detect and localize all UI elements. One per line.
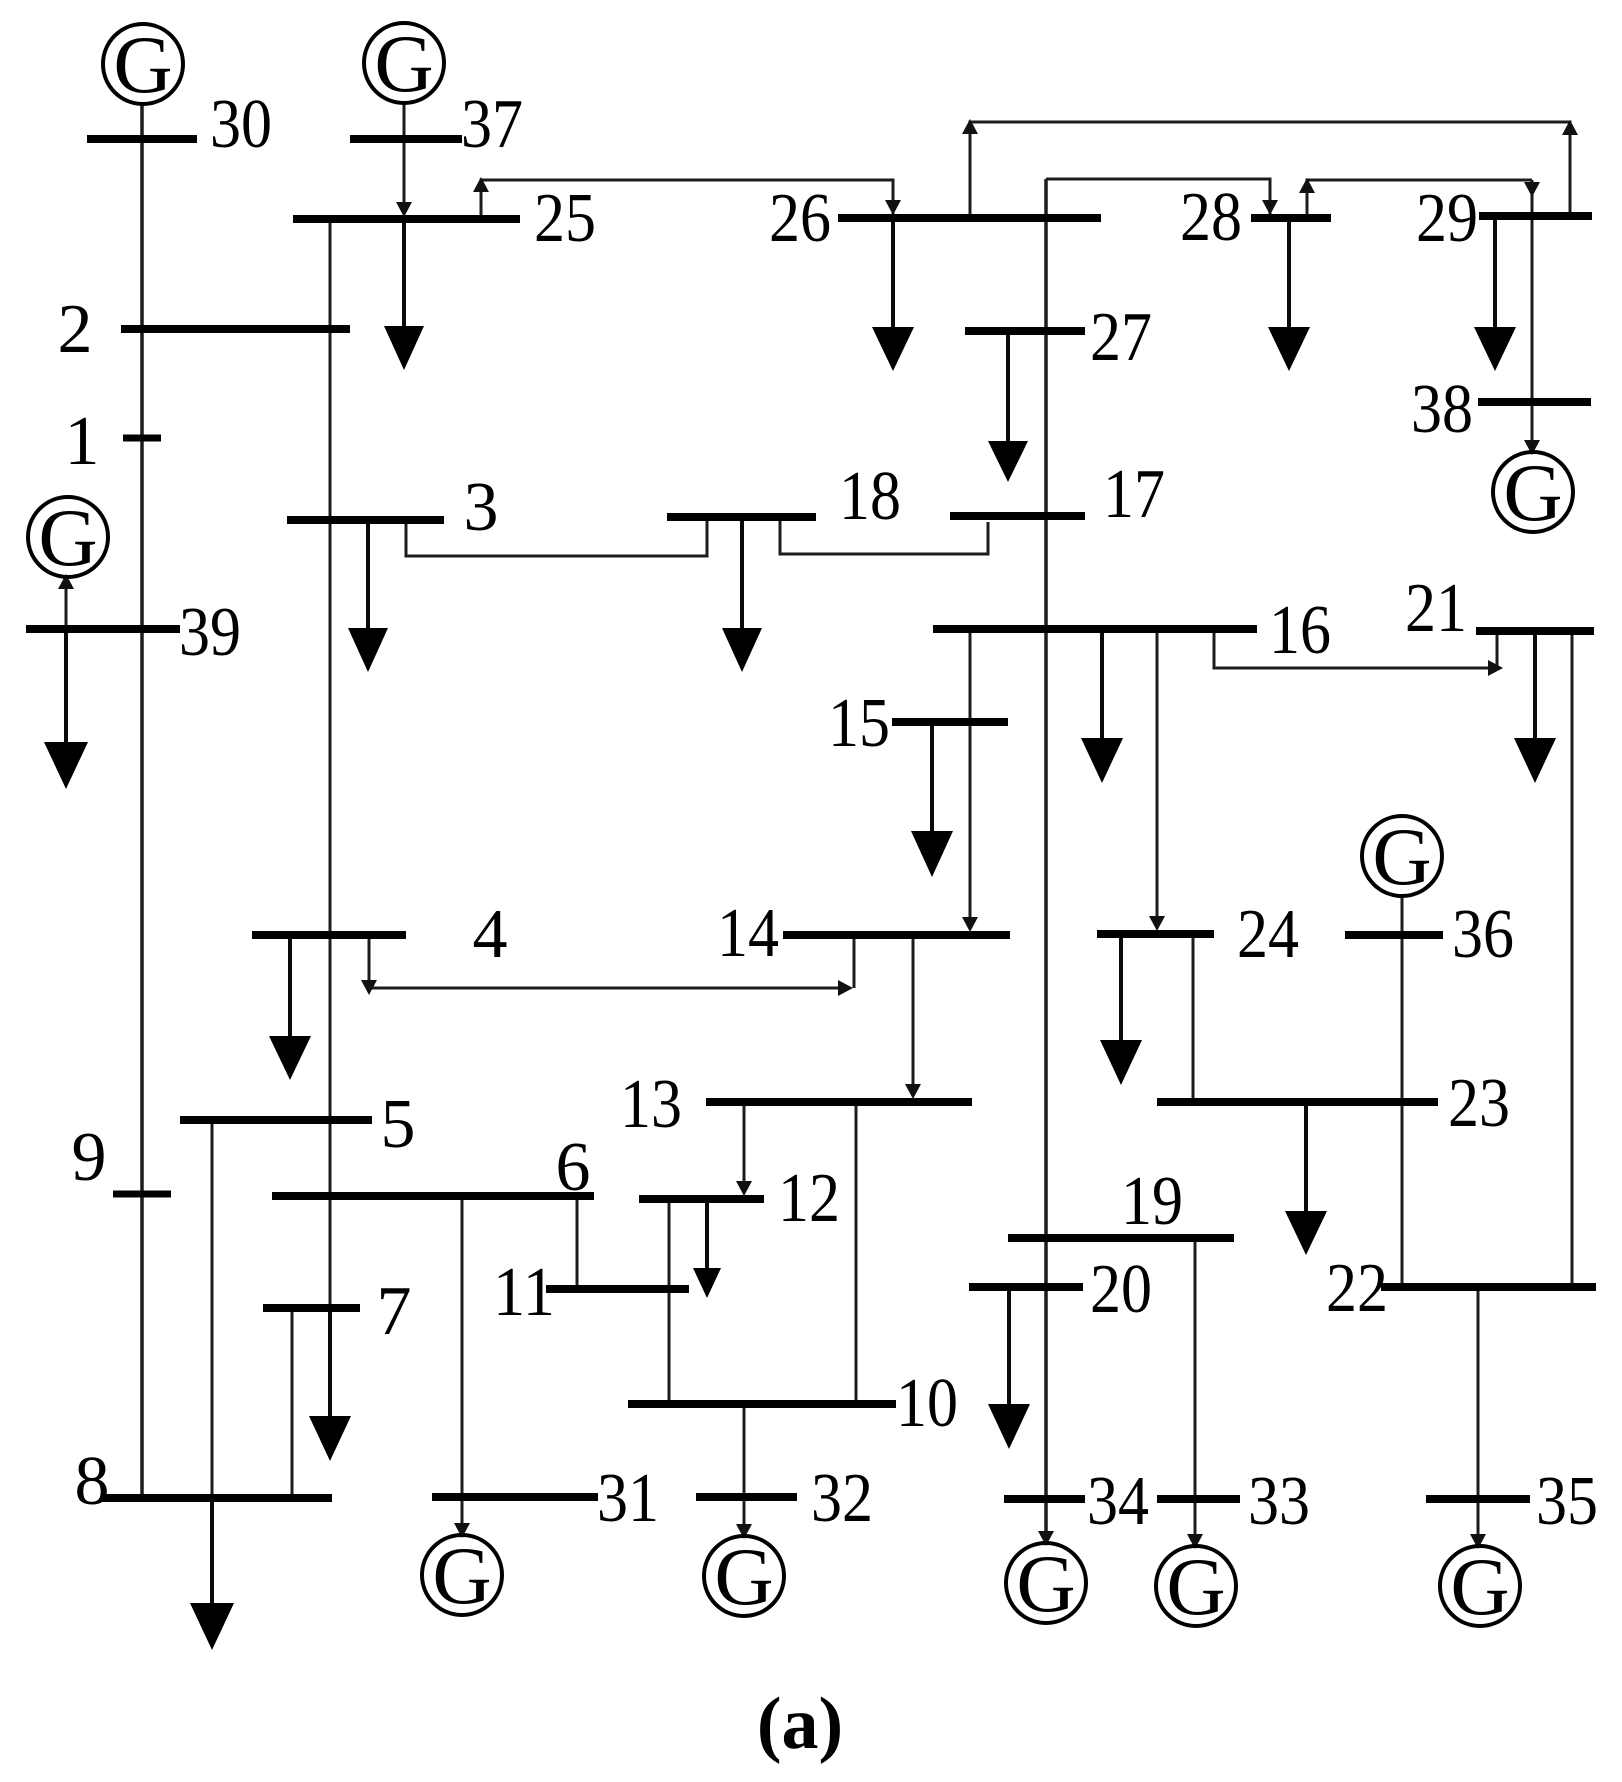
load at bus 21 (1514, 635, 1556, 783)
load at bus 4 (269, 939, 311, 1080)
wire 25-26 link (481, 180, 893, 215)
svg-text:15: 15 (828, 685, 890, 762)
svg-text:28: 28 (1180, 179, 1242, 256)
bus 29 (1479, 212, 1592, 220)
svg-text:10: 10 (896, 1365, 958, 1442)
svg-text:6: 6 (556, 1129, 591, 1206)
svg-text:12: 12 (778, 1160, 840, 1237)
bus 18 (667, 513, 816, 521)
svg-text:20: 20 (1090, 1251, 1152, 1328)
bus 30 (87, 135, 197, 143)
arrowhead into G33 (1187, 1534, 1203, 1549)
arrowhead 15-14 into bus 14 (962, 917, 978, 932)
load at bus 26 (872, 222, 914, 371)
bus 3 (287, 516, 444, 524)
bus 5 (180, 1116, 372, 1124)
load at bus 20 (988, 1291, 1030, 1449)
svg-text:G: G (1166, 1541, 1225, 1632)
svg-text:23: 23 (1448, 1065, 1510, 1142)
bus 31 (432, 1493, 598, 1501)
wire 24-23 (1192, 938, 1195, 1102)
load at bus 28 (1268, 222, 1310, 371)
wire 3-18 link (406, 521, 707, 556)
load at bus 24 (1100, 938, 1142, 1085)
wire 26-27-17-16-19-20-34 spine (1044, 179, 1048, 1544)
svg-text:16: 16 (1269, 592, 1331, 669)
wire 26-29 link (970, 122, 1570, 214)
arrowhead 14-13 into bus 13 (905, 1084, 921, 1099)
svg-text:33: 33 (1248, 1463, 1310, 1540)
svg-text:17: 17 (1103, 456, 1165, 533)
bus 12 (639, 1195, 764, 1203)
svg-text:1: 1 (65, 403, 100, 480)
bus 33 (1157, 1495, 1240, 1503)
load at bus 29 (1474, 220, 1516, 371)
bus 34 (1004, 1495, 1085, 1503)
wire 14-13 (912, 939, 915, 1088)
svg-text:G: G (38, 492, 97, 583)
load at bus 7 (309, 1312, 351, 1461)
load at bus 27 (988, 335, 1028, 482)
svg-text:14: 14 (717, 895, 779, 972)
wire 29-38-G38 (1531, 180, 1534, 453)
wire 16-21 riser (1496, 635, 1499, 666)
bus 39 (26, 625, 180, 633)
svg-text:5: 5 (381, 1086, 416, 1163)
wire 16-24 (1156, 633, 1159, 918)
svg-text:4: 4 (473, 896, 508, 973)
bus 16 (933, 625, 1257, 633)
wire G36-36-23-22 (1401, 895, 1404, 1283)
bus 9 (113, 1191, 171, 1198)
wire 7-8 (291, 1312, 294, 1494)
load at bus 12 (693, 1203, 721, 1298)
bus 13 (706, 1098, 972, 1106)
generator G32 (704, 1531, 784, 1622)
wire 6-11 (576, 1200, 579, 1285)
arrowhead 37 into bus 25 (396, 202, 412, 217)
svg-text:7: 7 (377, 1273, 412, 1350)
arrowhead into G38 (1524, 440, 1540, 455)
bus 2 (121, 325, 350, 333)
wire 10-32-G32 (743, 1408, 746, 1537)
load at bus 25 (384, 223, 424, 370)
svg-text:26: 26 (769, 180, 831, 257)
svg-text:G: G (1016, 1538, 1075, 1629)
arrowhead 4-14 right (838, 980, 853, 996)
generator G33 (1156, 1541, 1236, 1632)
bus 19 (1008, 1234, 1234, 1242)
arrowhead into G39 (58, 574, 74, 589)
bus 28 (1251, 214, 1331, 222)
load at bus 15 (911, 726, 953, 877)
bus 8 (102, 1494, 332, 1502)
wire 30-2-1-39-9-8 (140, 103, 144, 1498)
bus 7 (263, 1304, 360, 1312)
generator G35 (1440, 1541, 1520, 1632)
arrowhead into G34 (1038, 1531, 1054, 1546)
generator G31 (422, 1530, 502, 1621)
arrowhead into G32 (736, 1524, 752, 1539)
load at bus 16 (1081, 633, 1123, 783)
svg-text:38: 38 (1411, 371, 1473, 448)
arrowhead into G35 (1470, 1534, 1486, 1549)
arrowhead 26-28 into bus 28 (1262, 200, 1278, 215)
load at bus 3 (348, 524, 388, 672)
arrowhead 26-29 corner (1562, 120, 1578, 135)
generator G30 (103, 19, 183, 110)
svg-text:35: 35 (1536, 1463, 1598, 1540)
svg-text:G: G (1450, 1541, 1509, 1632)
arrowhead 16-24 into bus 24 (1149, 916, 1165, 931)
svg-text:27: 27 (1090, 299, 1152, 376)
wire G39-39 (65, 576, 68, 629)
wire 5-8 (211, 1124, 214, 1498)
wire 12-11-10 (668, 1203, 671, 1404)
arrowhead 28-29 up (1299, 178, 1315, 193)
generator G36 (1362, 811, 1442, 902)
svg-text:G: G (374, 18, 433, 109)
svg-text:3: 3 (464, 469, 499, 546)
svg-text:21: 21 (1405, 570, 1467, 647)
wire 6-31-G31 (461, 1200, 464, 1536)
generator G38 (1493, 447, 1573, 538)
generator G39 (28, 492, 108, 583)
wire 25-2-3-4-5-6-7 spine (329, 222, 332, 1308)
svg-text:11: 11 (493, 1254, 555, 1331)
svg-text:29: 29 (1416, 180, 1478, 257)
load at bus 8 (190, 1498, 234, 1650)
wire 13-12 (743, 1106, 746, 1185)
arrowhead 28-29 down (1524, 182, 1540, 197)
arrowhead into G31 (454, 1523, 470, 1538)
wire 13-10 (855, 1106, 858, 1404)
wire 28-29 link (1307, 180, 1532, 214)
bus 14 (783, 931, 1010, 939)
svg-text:36: 36 (1452, 896, 1514, 973)
svg-text:(a): (a) (757, 1683, 843, 1765)
arrowhead 26-29 up (962, 119, 978, 134)
bus 23 (1157, 1098, 1438, 1106)
bus 11 (546, 1285, 689, 1293)
arrowhead 16-21 right (1488, 660, 1503, 676)
svg-text:37: 37 (461, 86, 523, 163)
svg-text:G: G (1372, 811, 1431, 902)
svg-text:G: G (714, 1531, 773, 1622)
wire G37-37-25 (403, 102, 406, 214)
svg-text:18: 18 (839, 458, 901, 535)
bus 15 (892, 718, 1008, 726)
bus 22 (1381, 1283, 1596, 1291)
wire 22-35-G35 (1477, 1291, 1480, 1547)
generator G37 (364, 18, 444, 109)
bus 17 (950, 512, 1085, 520)
bus 6 (272, 1192, 594, 1200)
load at bus 39 (44, 633, 88, 789)
bus 36 (1345, 931, 1443, 939)
bus 37 (350, 135, 462, 143)
load at bus 18 (722, 521, 762, 672)
svg-text:2: 2 (58, 291, 93, 368)
arrowhead 25-26 into bus 26 (885, 200, 901, 215)
svg-text:30: 30 (210, 86, 272, 163)
wire 18-17 link (780, 521, 988, 554)
wire 4-14 riser (853, 939, 856, 988)
svg-text:8: 8 (75, 1443, 110, 1520)
bus 25 (293, 215, 520, 223)
svg-text:19: 19 (1121, 1163, 1183, 1240)
svg-text:22: 22 (1326, 1250, 1388, 1327)
bus 35 (1426, 1495, 1530, 1503)
svg-text:31: 31 (597, 1460, 659, 1537)
svg-text:25: 25 (534, 180, 596, 257)
wire 16-15-14 (969, 633, 972, 918)
bus 10 (628, 1400, 896, 1408)
arrowhead 25-26 up (473, 177, 489, 192)
wire 26-28 link (1046, 179, 1270, 214)
wire 21-22 (1571, 635, 1574, 1283)
svg-text:32: 32 (811, 1460, 873, 1537)
svg-text:34: 34 (1087, 1463, 1149, 1540)
svg-text:9: 9 (72, 1119, 107, 1196)
bus 21 (1476, 627, 1594, 635)
svg-text:24: 24 (1237, 896, 1299, 973)
bus 1 (123, 435, 161, 442)
bus 24 (1097, 930, 1214, 938)
wire 19-33-G33 (1194, 1242, 1197, 1547)
bus 4 (252, 931, 406, 939)
arrowhead 4-14 down (361, 980, 377, 995)
bus 38 (1478, 398, 1591, 406)
wire 16-21 link (1214, 633, 1490, 668)
wire 4-14 link (369, 939, 840, 988)
bus 26 (838, 214, 1101, 222)
svg-text:G: G (432, 1530, 491, 1621)
arrowhead 13-12 into bus 12 (736, 1181, 752, 1196)
svg-text:39: 39 (179, 594, 241, 671)
bus 27 (965, 327, 1085, 335)
svg-text:G: G (113, 19, 172, 110)
generator G34 (1006, 1538, 1086, 1629)
svg-text:G: G (1503, 447, 1562, 538)
bus 32 (696, 1493, 797, 1501)
load at bus 23 (1285, 1106, 1327, 1255)
svg-text:13: 13 (620, 1066, 682, 1143)
bus 20 (969, 1283, 1083, 1291)
